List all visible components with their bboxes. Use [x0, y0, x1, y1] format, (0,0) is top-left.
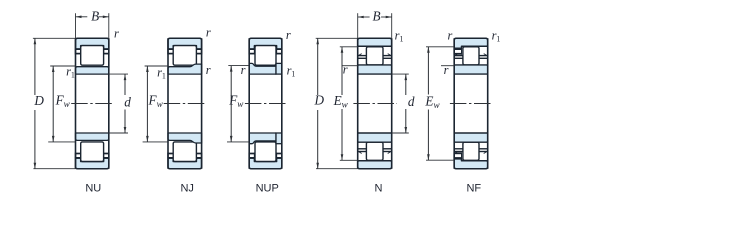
N bottom inner ring (double ribbed): [358, 133, 392, 142]
svg-text:Ew: Ew: [333, 93, 349, 109]
NUP loose rib: [276, 63, 282, 74]
NJ bottom inner ring (single ribbed): [168, 133, 202, 143]
NJ outer flange lip lines: [168, 48, 173, 50]
N inner flange lip lines: [358, 55, 367, 57]
dimension B (NU): [75, 13, 77, 38]
svg-text:NF: NF: [466, 183, 481, 195]
NU centerline (axis): [71, 103, 114, 105]
NU roller: [81, 46, 104, 66]
NJ centerline (axis): [164, 103, 207, 105]
NU outer flange lip lines: [76, 48, 81, 50]
NU bottom roller: [81, 142, 104, 162]
NUP side faces: [248, 38, 250, 169]
svg-text:D: D: [33, 93, 44, 108]
N bottom outer ring (plain): [358, 161, 392, 169]
NF bottom roller: [463, 142, 479, 160]
NU side faces: [75, 38, 77, 169]
N inner ring (double ribbed): [358, 65, 392, 74]
NF inner flange lip lines: [454, 55, 463, 57]
svg-text:r1: r1: [66, 64, 75, 79]
NU outer ring (double flanged): [76, 38, 109, 49]
dimension d (NU): [109, 73, 128, 75]
N bottom roller: [366, 142, 383, 160]
svg-text:r: r: [447, 28, 452, 42]
NJ roller: [173, 46, 196, 66]
svg-text:Fw: Fw: [228, 93, 244, 109]
NU inner ring (plain): [76, 67, 109, 74]
svg-text:NUP: NUP: [256, 183, 279, 195]
NJ bottom outer ring (double flanged): [168, 158, 202, 169]
svg-text:N: N: [375, 183, 383, 195]
NF bottom inner ring (double ribbed): [454, 133, 488, 142]
N bottom inner flange lip lines: [358, 151, 367, 153]
svg-text:NJ: NJ: [180, 183, 193, 195]
NJ inner ring (single ribbed): [168, 64, 202, 74]
NF side faces: [453, 38, 455, 169]
svg-text:r1: r1: [287, 63, 296, 78]
NJ bottom roller: [173, 142, 196, 162]
NU bottom outer ring (double flanged): [76, 158, 109, 169]
NUP bottom roller: [255, 142, 276, 162]
NUP centerline (axis): [245, 103, 287, 105]
NJ bottom outer flange lip lines: [168, 157, 173, 159]
svg-text:Fw: Fw: [55, 93, 71, 109]
N side faces: [357, 38, 359, 169]
svg-text:d: d: [124, 94, 131, 109]
bearing NJ cross-section: [164, 38, 207, 169]
svg-text:r: r: [444, 63, 449, 77]
svg-text:r1: r1: [395, 28, 404, 43]
dimension B (N): [357, 13, 359, 38]
NUP bottom outer ring (double flanged): [249, 158, 282, 169]
svg-text:r1: r1: [492, 29, 501, 44]
NF bottom inner flange lip lines: [454, 151, 463, 153]
extension line r (N): [342, 65, 358, 67]
dimension d (N): [392, 73, 409, 75]
NJ outer ring (double flanged): [168, 38, 202, 49]
dimension Fw (NUP): [228, 65, 249, 67]
dimension D (NU): [33, 37, 76, 39]
NUP bottom inner ring (single ribbed, left): [249, 133, 276, 144]
extension line r (NF): [441, 65, 454, 67]
NF outer flange lip lines: [454, 48, 461, 50]
N outer ring (plain): [358, 38, 392, 46]
N roller: [366, 47, 383, 65]
NF inner ring (double ribbed): [454, 65, 488, 74]
svg-text:r1: r1: [157, 65, 166, 80]
dimension Fw (NU): [50, 65, 75, 67]
bearing NF cross-section: [450, 38, 493, 169]
svg-text:Fw: Fw: [148, 93, 164, 109]
svg-text:B: B: [91, 8, 99, 23]
dimension Ew (N): [340, 46, 358, 48]
NUP roller: [255, 46, 276, 66]
NU bottom inner ring (plain): [76, 133, 109, 140]
dimension Fw (NJ): [145, 65, 168, 67]
NUP outer flange lip lines: [249, 48, 254, 50]
svg-text:d: d: [408, 94, 415, 109]
dimension D (N): [316, 37, 358, 39]
NF outer ring (single flanged): [454, 38, 488, 48]
svg-text:r: r: [206, 63, 211, 77]
NF roller: [463, 47, 479, 65]
NUP outer ring (double flanged): [249, 38, 282, 49]
svg-text:r: r: [114, 27, 119, 41]
svg-text:B: B: [372, 8, 380, 23]
NUP bottom outer flange lip lines: [249, 157, 254, 159]
bearing N cross-section: [353, 38, 397, 169]
svg-text:r: r: [343, 62, 348, 76]
svg-text:Ew: Ew: [424, 94, 440, 110]
bearing NUP cross-section: [245, 38, 287, 169]
NF bottom outer flange lip lines: [454, 157, 461, 159]
NJ side faces: [167, 38, 169, 169]
dimension Ew (NF): [426, 46, 454, 48]
N centerline (axis): [353, 103, 397, 105]
svg-text:r: r: [286, 28, 291, 42]
NF centerline (axis): [450, 103, 493, 105]
NU bottom outer flange lip lines: [76, 157, 81, 159]
svg-text:r: r: [206, 26, 211, 40]
NF bottom outer ring (single flanged): [454, 159, 488, 169]
NUP bottom loose rib: [276, 133, 282, 144]
bearing NU cross-section: [71, 38, 114, 169]
svg-text:r: r: [241, 63, 246, 77]
svg-text:NU: NU: [85, 183, 101, 195]
NUP inner ring (single ribbed, left): [249, 63, 276, 74]
svg-text:D: D: [314, 92, 325, 107]
